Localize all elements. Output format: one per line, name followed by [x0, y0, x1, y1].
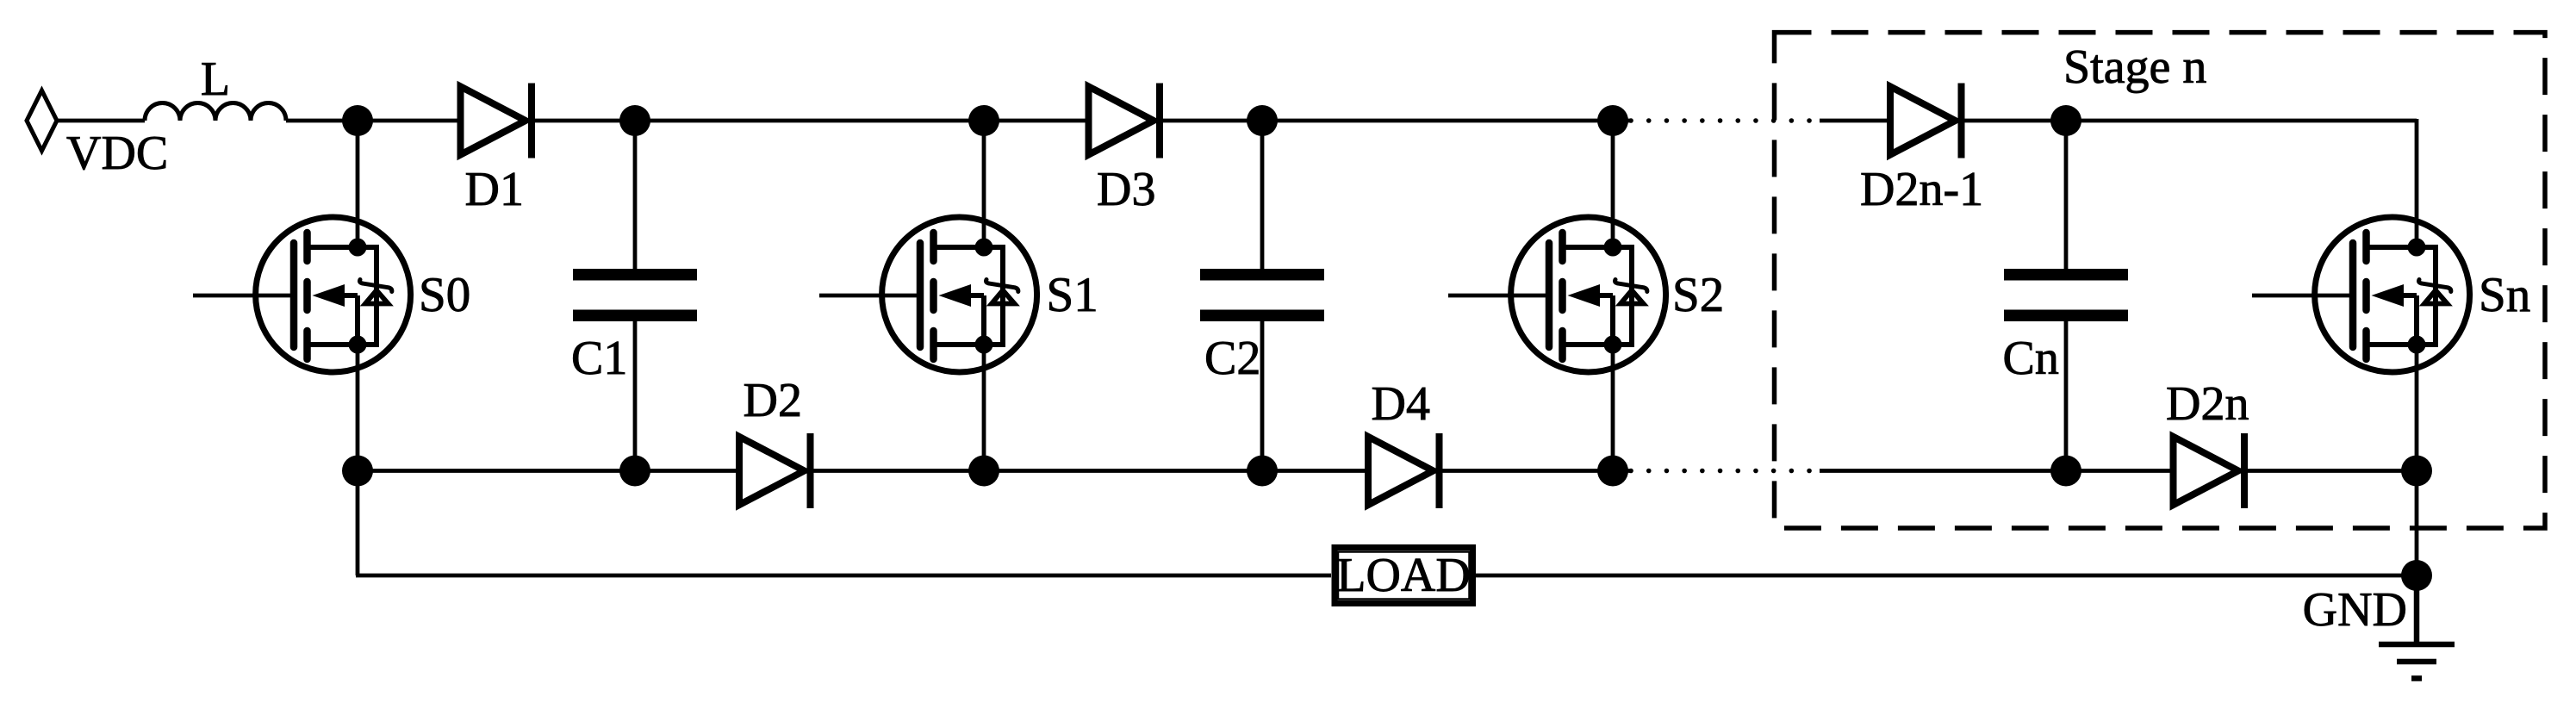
- diode D4: [1368, 433, 1440, 508]
- node M2: [619, 456, 650, 487]
- svg-text:D2n: D2n: [2166, 377, 2249, 431]
- dotted continuation top rail: [1631, 118, 1812, 123]
- wire C1 top vertical: [633, 121, 638, 269]
- svg-text:D2n-1: D2n-1: [1860, 163, 1983, 216]
- diode D2: [739, 433, 811, 508]
- wire D1 cathode to node N3: [535, 119, 1089, 123]
- diode D1: [461, 84, 532, 159]
- capacitor C1: [573, 275, 697, 316]
- transistor S2: [1448, 217, 1666, 372]
- wire inductor to node N1 to D1 anode: [286, 119, 461, 123]
- node M3: [968, 456, 999, 487]
- wire S2 source vertical: [1611, 345, 1615, 471]
- svg-text:S0: S0: [419, 268, 470, 322]
- diode D2n-1: [1890, 84, 1962, 159]
- svg-text:D1: D1: [465, 163, 524, 216]
- load box: [1335, 548, 1473, 604]
- node N1: [342, 105, 373, 136]
- wire into stage box to D2n anode: [1820, 469, 2174, 473]
- node N6: [2050, 105, 2081, 136]
- svg-text:S1: S1: [1047, 268, 1098, 322]
- wire S1 source vertical: [982, 345, 986, 471]
- svg-text:Cn: Cn: [2003, 332, 2059, 385]
- stage n dashed box: [1775, 33, 2546, 528]
- svg-text:LOAD: LOAD: [1336, 549, 1471, 602]
- wire M7 down to ground node: [2415, 471, 2419, 576]
- wire mid rail M1 to D2 anode: [358, 469, 739, 473]
- wire D3 cathode to node N5: [1163, 119, 1631, 123]
- wire D2 cathode to D4 anode: [813, 469, 1368, 473]
- node N3: [968, 105, 999, 136]
- wire load rail right: [1476, 574, 2417, 578]
- node M4: [1247, 456, 1278, 487]
- wire S0 source vertical: [356, 345, 360, 471]
- wire C1 bottom vertical: [633, 321, 638, 471]
- node M6: [2050, 456, 2081, 487]
- wire Sn drain lower vertical: [2415, 345, 2419, 471]
- wire C2 top vertical: [1260, 121, 1265, 269]
- node M5: [1597, 456, 1628, 487]
- node M7: [2401, 456, 2432, 487]
- svg-text:C2: C2: [1204, 332, 1260, 385]
- svg-text:D3: D3: [1097, 163, 1155, 216]
- svg-text:C1: C1: [571, 332, 627, 385]
- transistor S1: [819, 217, 1037, 372]
- svg-text:S2: S2: [1672, 268, 1724, 322]
- wire S0 drain vertical: [356, 121, 360, 247]
- diode D2n: [2174, 433, 2245, 508]
- source VDC terminal: [27, 90, 57, 151]
- wire S2 drain vertical: [1611, 121, 1615, 247]
- wire load rail left: [356, 574, 1331, 578]
- transistor S0: [193, 217, 411, 372]
- wire D4 cathode to node M5: [1442, 469, 1630, 473]
- svg-text:L: L: [201, 53, 230, 106]
- wire into stage box to D2n-1 anode: [1820, 119, 1890, 123]
- wire S1 drain vertical: [982, 121, 986, 247]
- inductor L: [145, 103, 286, 121]
- capacitor Cn: [2004, 275, 2128, 316]
- node GND junction: [2401, 560, 2432, 591]
- svg-text:Stage n: Stage n: [2063, 40, 2206, 94]
- wire D2n cathode to node M7: [2248, 469, 2417, 473]
- diode D3: [1089, 84, 1160, 159]
- wire M1 down to load rail: [356, 471, 360, 576]
- capacitor C2: [1200, 275, 1324, 316]
- svg-text:VDC: VDC: [66, 127, 168, 180]
- wire Cn bottom vertical: [2064, 321, 2069, 471]
- node N2: [619, 105, 650, 136]
- wire corner down to Sn drain: [2415, 119, 2419, 247]
- svg-text:Sn: Sn: [2479, 268, 2530, 322]
- svg-text:D2: D2: [744, 374, 802, 427]
- wire C2 bottom vertical: [1260, 321, 1265, 471]
- svg-text:D4: D4: [1372, 377, 1430, 431]
- wire Cn top vertical: [2064, 121, 2069, 269]
- node N5: [1597, 105, 1628, 136]
- transistor Sn: [2252, 217, 2470, 372]
- wire VDC to inductor: [57, 119, 145, 123]
- node M1: [342, 456, 373, 487]
- wire D2n-1 cathode to top-right corner: [1964, 119, 2417, 123]
- node N4: [1247, 105, 1278, 136]
- dotted continuation mid rail: [1631, 469, 1812, 474]
- ground: [2379, 575, 2455, 679]
- svg-text:GND: GND: [2303, 583, 2407, 637]
